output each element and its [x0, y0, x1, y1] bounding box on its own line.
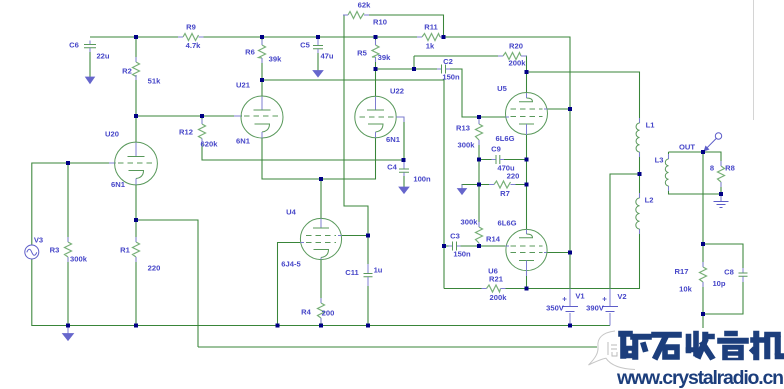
svg-text:100n: 100n — [413, 175, 431, 184]
svg-text:C5: C5 — [300, 41, 310, 50]
svg-text:39k: 39k — [269, 55, 282, 64]
svg-text:R21: R21 — [489, 275, 504, 284]
wire: U20 cathode to R1 and NFB riser — [136, 185, 198, 347]
page border line — [753, 0, 755, 120]
svg-text:200k: 200k — [490, 293, 508, 302]
resistor R9 4.7k — [183, 34, 199, 41]
resistor R4 200 — [318, 303, 325, 318]
svg-text:C3: C3 — [450, 232, 460, 241]
wire: cathode join row U21 U22 to U4 plate — [262, 138, 376, 219]
ground for C6 — [86, 77, 95, 84]
sine source V3 — [25, 245, 39, 259]
svg-text:U4: U4 — [286, 208, 296, 217]
ground for C5 — [313, 71, 323, 78]
svg-text:R10: R10 — [373, 18, 387, 27]
wire: R12 top lead — [201, 116, 203, 124]
wire: R10 feedback loop top — [344, 15, 444, 236]
resistor R7 220 — [494, 181, 511, 188]
wire: R12 bottom to C4 and U22 grid — [202, 117, 404, 160]
svg-text:R5: R5 — [357, 49, 367, 58]
svg-text:200: 200 — [322, 309, 335, 318]
wire: U20 grid row to V3 — [32, 163, 116, 245]
svg-text:R17: R17 — [675, 267, 689, 276]
capacitor C11 1u — [364, 264, 373, 286]
probe at OUT — [704, 133, 722, 152]
wire: R7 ground stub — [462, 185, 479, 189]
wire: U4 suppressor to C11 column — [342, 236, 368, 326]
resistor R5 39k — [372, 45, 379, 57]
svg-text:300k: 300k — [70, 255, 88, 264]
wire: B+ top rail from C6 to V1 column — [90, 37, 570, 289]
wire: R5 top lead — [375, 37, 377, 45]
svg-text:47u: 47u — [320, 52, 333, 61]
svg-text:R20: R20 — [509, 42, 523, 51]
resistor R11 1k — [422, 34, 440, 41]
svg-text:C9: C9 — [491, 145, 501, 154]
svg-text:C6: C6 — [69, 41, 79, 50]
wire: R7 row — [462, 184, 527, 186]
inductor L1 — [636, 118, 639, 157]
wire: U21 plate row to C3 column — [262, 58, 444, 289]
wire: R6 top lead — [261, 37, 263, 45]
svg-text:U5: U5 — [497, 84, 507, 93]
svg-text:220: 220 — [507, 172, 520, 181]
svg-text:10k: 10k — [679, 285, 692, 294]
wire: R3 column — [67, 163, 69, 326]
svg-text:1u: 1u — [374, 266, 383, 275]
svg-text:www.crystalradio.cn: www.crystalradio.cn — [616, 367, 784, 389]
svg-text:R11: R11 — [424, 23, 438, 32]
wire: NFB bottom run — [198, 314, 703, 347]
wire: R20 row — [414, 56, 527, 72]
resistor R3 300k — [65, 242, 72, 257]
svg-text:150n: 150n — [453, 250, 471, 259]
pentode U4 6J4-5 — [300, 218, 341, 259]
svg-text:C8: C8 — [724, 268, 734, 277]
capacitor C5 47u — [313, 37, 323, 71]
svg-text:22u: 22u — [96, 52, 109, 61]
resistor pin stubs — [68, 15, 721, 323]
svg-text:R3: R3 — [50, 246, 60, 255]
wire: R13 column to C9 row — [478, 117, 480, 185]
svg-text:300k: 300k — [461, 218, 479, 227]
svg-text:V2: V2 — [617, 292, 626, 301]
capacitor C9 470u — [492, 155, 505, 164]
svg-text:390V: 390V — [586, 304, 605, 313]
triode U21 6N1 — [234, 96, 283, 138]
svg-text:L2: L2 — [645, 196, 654, 205]
svg-text:10p: 10p — [712, 279, 725, 288]
wire: R21 cathode row to L2 bottom — [444, 229, 640, 289]
resistor R12 620k — [199, 124, 206, 139]
battery V2 390V — [602, 289, 618, 326]
svg-text:51k: 51k — [148, 77, 161, 86]
wire: U5 screen to B+ column — [548, 108, 571, 110]
triode U20 6N1 — [109, 142, 157, 185]
wire: U5 cathode to U6 plate column — [526, 135, 528, 230]
svg-text:350V: 350V — [546, 304, 565, 313]
svg-text:200k: 200k — [509, 59, 527, 68]
wire: U21 plate lead drop — [261, 80, 263, 97]
wire: C9 row — [479, 159, 527, 161]
resistor R8 8 — [718, 166, 725, 182]
svg-text:6N1: 6N1 — [386, 135, 401, 144]
svg-text:R2: R2 — [122, 67, 132, 76]
svg-text:R12: R12 — [179, 128, 193, 137]
capacitor C2 150n — [437, 65, 450, 74]
resistor R1 220 — [133, 242, 140, 257]
resistor R17 10k — [700, 267, 707, 282]
svg-text:L3: L3 — [655, 156, 664, 165]
svg-text:6N1: 6N1 — [236, 137, 251, 146]
svg-text:8: 8 — [710, 164, 714, 173]
svg-text:620k: 620k — [201, 140, 219, 149]
svg-text:6L6G: 6L6G — [498, 219, 517, 228]
wire: U6 screen to B+ column — [547, 252, 570, 254]
wire: L3 R8 loop — [669, 152, 722, 201]
svg-text:R8: R8 — [725, 164, 735, 173]
svg-text:R9: R9 — [186, 23, 196, 32]
watermark bubble — [588, 328, 784, 371]
wire: C2 right to R13 top and U5 grid — [446, 69, 506, 117]
wire: ground rail — [32, 259, 610, 326]
svg-text:300k: 300k — [458, 141, 476, 150]
resistor R6 39k — [259, 45, 266, 58]
svg-text:39k: 39k — [378, 53, 391, 62]
svg-text:C11: C11 — [345, 268, 359, 277]
capacitor C8 10p — [739, 268, 748, 282]
svg-text:U21: U21 — [236, 81, 251, 90]
ground for C4 — [399, 187, 409, 194]
wire: U5 plate node to L1 — [527, 72, 640, 123]
svg-text:6J4-5: 6J4-5 — [281, 260, 301, 269]
wire: U4 screen to ground rail column — [278, 243, 301, 326]
wire: U20 plate lead riser — [135, 116, 137, 143]
svg-text:U22: U22 — [390, 87, 404, 96]
wire: OUT node to R17 column — [702, 152, 704, 314]
svg-text:R7: R7 — [500, 189, 510, 198]
triode U22 6N1 — [355, 96, 404, 160]
svg-text:R1: R1 — [120, 246, 130, 255]
resistor R2 51k — [133, 62, 140, 77]
capacitor C3 150n — [449, 242, 461, 251]
wire: U5 plate lead drop — [526, 72, 528, 93]
svg-text:U20: U20 — [105, 130, 119, 139]
svg-text:R4: R4 — [301, 308, 311, 317]
wire: L1 L2 leads — [639, 152, 641, 198]
svg-text:R14: R14 — [486, 235, 501, 244]
wire: C2 row from R5 bottom — [376, 56, 442, 69]
svg-text:C4: C4 — [387, 163, 397, 172]
wire: R14 column — [478, 185, 480, 247]
wire: C3 row to U6 grid — [444, 245, 505, 247]
capacitor C6 22u — [84, 41, 96, 78]
svg-text:C2: C2 — [443, 57, 453, 66]
ground main (left) — [63, 326, 74, 341]
resistor R13 300k — [476, 124, 483, 140]
beam tetrode U6 6L6G — [505, 229, 547, 276]
resistor R20 200k — [503, 53, 521, 60]
inductor L3 — [665, 154, 668, 191]
svg-text:4.7k: 4.7k — [186, 41, 202, 50]
svg-text:220: 220 — [148, 264, 161, 273]
svg-text:6N1: 6N1 — [111, 180, 126, 189]
resistor R21 200k — [487, 285, 501, 292]
svg-text:150n: 150n — [442, 73, 460, 82]
battery V1 350V — [562, 289, 578, 326]
wire: U20 plate row to R12 and U21 grid — [136, 37, 242, 116]
beam tetrode U5 6L6G — [506, 93, 548, 136]
watermark logo text kuang shi shou yin ji — [608, 342, 617, 356]
wire: U4 cathode to R4 — [320, 260, 322, 326]
svg-text:6L6G: 6L6G — [496, 134, 515, 143]
svg-text:V3: V3 — [34, 236, 43, 245]
wire: U22 plate lead drop — [375, 69, 377, 97]
svg-text:V1: V1 — [575, 292, 585, 301]
svg-text:R6: R6 — [245, 48, 255, 57]
inductor L2 — [636, 193, 640, 234]
resistor R10 62k — [348, 12, 364, 19]
svg-text:L1: L1 — [646, 121, 656, 130]
svg-text:OUT: OUT — [679, 143, 695, 152]
earth ground at R8 — [714, 196, 729, 208]
svg-text:R13: R13 — [456, 124, 470, 133]
wire: center tap to V2 column — [610, 174, 640, 289]
svg-text:62k: 62k — [358, 1, 371, 10]
svg-text:1k: 1k — [426, 42, 435, 51]
resistor R14 300k — [476, 227, 483, 243]
capacitor C4 100n — [399, 160, 409, 187]
ground at R7 — [458, 185, 467, 195]
wire: C8 branch — [703, 244, 743, 314]
